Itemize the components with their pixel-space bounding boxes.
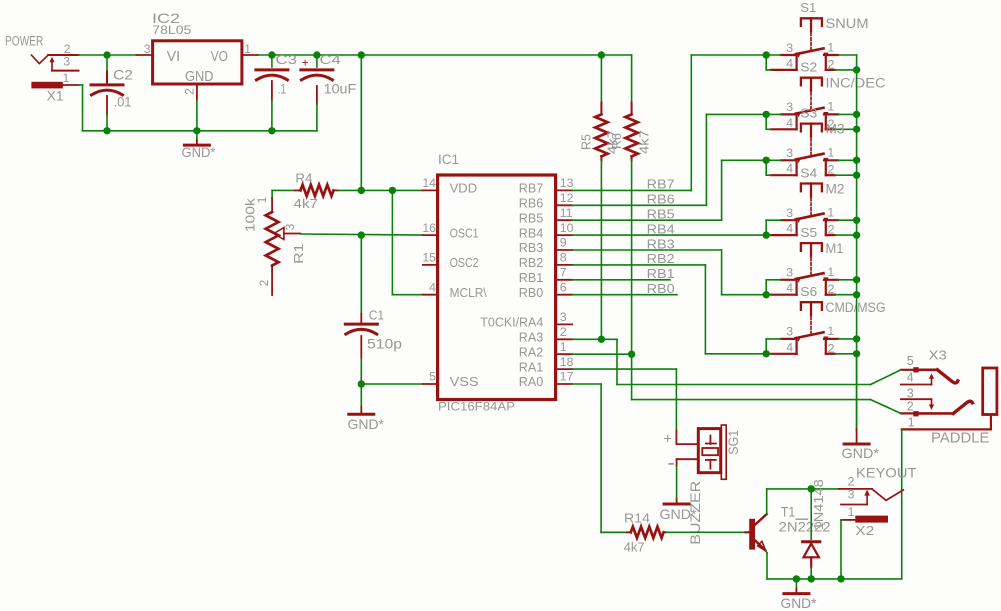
connector X3 (paddle jack) — [907, 347, 947, 429]
svg-text:RB4: RB4 — [519, 226, 544, 240]
svg-text:2: 2 — [257, 279, 271, 286]
svg-text:1: 1 — [827, 146, 834, 160]
svg-text:4: 4 — [786, 162, 793, 176]
connector X2 (KEYOUT) — [848, 465, 917, 538]
resistor R5 — [579, 55, 619, 339]
IC1 pin 18 (RA1) stub — [519, 355, 574, 375]
svg-text:SG1: SG1 — [726, 430, 741, 455]
svg-text:3: 3 — [786, 325, 793, 339]
IC1 pin 16 (OSC1) stub — [422, 221, 478, 241]
svg-text:RB3: RB3 — [647, 236, 675, 251]
net label RB0 — [647, 281, 675, 296]
ground GND* (emitter) — [781, 579, 818, 611]
junction dot OSC1/C1 — [358, 231, 365, 238]
switch S3 wire wrap (pins 3-4) — [766, 160, 781, 175]
capacitor C1 — [345, 235, 402, 384]
IC2 pin VI stub — [137, 54, 153, 56]
wire VDD to MCLR — [392, 190, 422, 294]
resistor R14 — [601, 511, 746, 555]
svg-text:.01: .01 — [114, 95, 132, 110]
capacitor C4 (polarized) — [301, 53, 356, 131]
IC1 pin 1 (RA2) stub — [519, 340, 572, 360]
svg-text:RB6: RB6 — [647, 192, 675, 207]
svg-text:RB4: RB4 — [647, 221, 675, 236]
switch S2 dashed actuator link — [810, 92, 812, 111]
svg-text:GND*: GND* — [182, 144, 217, 160]
svg-text:SNUM: SNUM — [826, 16, 869, 31]
net label RB4 — [647, 221, 675, 236]
switch common column — [856, 55, 858, 432]
ground GND* (regulator) — [182, 131, 217, 160]
switch S5 button symbol — [800, 225, 843, 256]
svg-text:KEYOUT: KEYOUT — [856, 465, 917, 481]
svg-text:16: 16 — [422, 221, 436, 235]
wire emitter down to rail — [766, 551, 767, 579]
svg-text:3: 3 — [786, 100, 793, 114]
svg-text:5: 5 — [907, 354, 914, 368]
switch S3 dashed actuator link — [810, 138, 812, 157]
svg-text:S4: S4 — [800, 165, 817, 180]
wire RA0 to R14 — [572, 384, 627, 532]
net label RB2 — [647, 251, 675, 266]
svg-text:RB0: RB0 — [519, 286, 544, 300]
svg-text:8: 8 — [560, 251, 567, 265]
svg-text:14: 14 — [422, 176, 436, 190]
junction dot column — [853, 126, 860, 133]
net label RB5 — [647, 207, 675, 222]
switch S6 pin1/pin2 to common column — [835, 339, 857, 354]
svg-text:RB2: RB2 — [519, 256, 544, 270]
junction dot C2 top — [103, 51, 110, 58]
junction dot column — [853, 172, 860, 179]
junction dot S1 feed — [763, 51, 770, 58]
junction dot diode top — [808, 485, 815, 492]
wire RB4 to S4 — [572, 234, 766, 236]
svg-text:5: 5 — [429, 370, 436, 384]
wire RA3 to X3 tip — [572, 339, 870, 384]
svg-text:1: 1 — [827, 40, 834, 54]
svg-text:RA0: RA0 — [519, 375, 544, 389]
ground GND* (buzzer) — [660, 466, 698, 522]
net label RB6 — [647, 192, 675, 207]
switch S1 dashed actuator link — [810, 33, 812, 52]
wire X3 sleeve to emitter rail — [901, 429, 903, 579]
wire C1/VSS to pin 5 — [361, 383, 423, 385]
svg-text:M1: M1 — [826, 241, 844, 256]
svg-text:GND*: GND* — [781, 595, 818, 611]
svg-text:1: 1 — [827, 206, 834, 220]
junction dot column — [853, 291, 860, 298]
svg-text:2: 2 — [828, 223, 835, 237]
junction dot VDD 1 — [358, 187, 365, 194]
emitter/ground rail — [767, 578, 902, 580]
junction dot S3 feed — [763, 157, 770, 164]
svg-text:12: 12 — [560, 191, 574, 205]
junction dot KEYOUT rail start — [808, 485, 815, 492]
junction dot gnd stem — [793, 575, 800, 582]
junction dot column — [853, 231, 860, 238]
IC2 pin GND stub — [196, 84, 198, 100]
svg-text:2: 2 — [848, 475, 855, 489]
svg-text:2: 2 — [64, 42, 71, 56]
switch S4 wire wrap (pins 3-4) — [766, 220, 781, 235]
svg-text:PIC16F84AP: PIC16F84AP — [438, 401, 515, 414]
switch S6 dashed actuator link — [810, 317, 812, 336]
svg-text:10: 10 — [560, 221, 574, 235]
wire RB7 to S1 — [572, 55, 766, 190]
svg-text:+: + — [302, 58, 309, 70]
junction dot S2 feed — [763, 111, 770, 118]
svg-text:10uF: 10uF — [324, 82, 357, 97]
junction dot riser at +5V rail — [358, 51, 365, 58]
IC1 pin 17 (RA0) stub — [519, 370, 574, 390]
svg-text:RB3: RB3 — [519, 241, 544, 255]
+5V rail to R5/R6 — [361, 54, 631, 56]
svg-text:1: 1 — [63, 71, 70, 85]
svg-text:R14: R14 — [624, 511, 650, 526]
svg-text:RB7: RB7 — [647, 177, 675, 192]
switch S2 wire wrap (pins 3-4) — [766, 114, 781, 129]
IC1 pin 13 (RB7) stub — [519, 176, 574, 196]
IC1 pin 5 (VSS) stub — [423, 370, 479, 390]
svg-text:3: 3 — [560, 310, 567, 324]
switch S6 button symbol — [800, 284, 885, 315]
svg-text:3: 3 — [786, 206, 793, 220]
svg-text:2: 2 — [828, 341, 835, 355]
wire X1.2 to VI (power) — [79, 54, 137, 56]
SG1 pin - stub — [677, 459, 699, 466]
junction dot VDD 2 — [389, 187, 396, 194]
switch S6 wire wrap (pins 3-4) — [766, 339, 781, 354]
IC1 pin 10 (RB4) stub — [519, 221, 574, 241]
wire IC2 GND down — [196, 100, 198, 131]
IC2 pin VO stub — [242, 54, 258, 56]
svg-text:MCLR\: MCLR\ — [450, 286, 487, 300]
junction dot column — [853, 217, 860, 224]
junction dot IC2 gnd at rail — [193, 127, 200, 134]
svg-text:GND*: GND* — [348, 416, 385, 432]
label PADDLE — [931, 429, 990, 446]
IC1 pin 11 (RB5) stub — [519, 206, 573, 226]
diode D1 1N4148 — [803, 479, 826, 579]
wire RA1 to buzzer — [572, 369, 676, 432]
svg-text:3: 3 — [786, 266, 793, 280]
wire RA2 to X3 ring — [572, 354, 870, 399]
IC1 pin 12 (RB6) stub — [519, 191, 574, 211]
svg-text:9: 9 — [560, 236, 567, 250]
X3 diagonal feed (tip) — [871, 370, 901, 385]
svg-text:OSC1: OSC1 — [450, 226, 479, 240]
junction dot column — [853, 276, 860, 283]
switch S5 pin1/pin2 to common column — [835, 280, 857, 295]
svg-text:X3: X3 — [929, 347, 947, 362]
junction dot diode bottom — [808, 575, 815, 582]
label BUZZER — [687, 481, 703, 545]
svg-text:3: 3 — [283, 223, 297, 230]
X1 pin 1 (thick pad) — [31, 82, 78, 89]
capacitor C3 — [256, 53, 297, 131]
svg-text:15: 15 — [422, 251, 436, 265]
svg-text:13: 13 — [560, 176, 574, 190]
svg-text:OSC2: OSC2 — [450, 256, 479, 270]
svg-text:VI: VI — [167, 49, 181, 65]
ground GND* (C1/VSS) — [348, 384, 385, 432]
svg-text:C3: C3 — [276, 53, 298, 67]
svg-text:R1: R1 — [292, 244, 306, 264]
switch S2 button symbol — [800, 60, 885, 91]
svg-text:IC1: IC1 — [438, 152, 459, 167]
svg-text:4k7: 4k7 — [294, 196, 319, 211]
svg-text:7: 7 — [560, 266, 567, 280]
svg-text:4: 4 — [786, 222, 793, 236]
svg-text:CMD/MSG: CMD/MSG — [826, 300, 886, 315]
svg-text:3: 3 — [786, 41, 793, 55]
junction dot R5 top — [598, 51, 605, 58]
svg-text:3: 3 — [848, 488, 855, 502]
svg-text:6: 6 — [560, 280, 567, 294]
svg-text:11: 11 — [560, 206, 573, 220]
switch S6 contacts — [771, 324, 838, 355]
junction dot S6 feed — [763, 350, 770, 357]
wire RB0 (stub) — [572, 294, 677, 296]
svg-text:R4: R4 — [295, 170, 312, 185]
switch S5 dashed actuator link — [810, 258, 812, 277]
switch S4 pin1/pin2 to common column — [835, 220, 857, 235]
svg-text:1: 1 — [827, 324, 834, 338]
svg-text:2: 2 — [907, 400, 914, 414]
svg-text:S2: S2 — [800, 60, 817, 75]
IC1 pin 3 (T0CKI/RA4) stub — [480, 310, 572, 330]
wire RB6 to S2 — [572, 114, 766, 205]
junction dot S5 feed — [763, 291, 770, 298]
svg-text:S3: S3 — [800, 105, 817, 120]
svg-text:4: 4 — [786, 116, 793, 130]
svg-text:1: 1 — [560, 340, 567, 354]
svg-text:1: 1 — [827, 100, 834, 114]
svg-text:RB0: RB0 — [647, 281, 675, 296]
wire RB5 to S3 — [572, 160, 766, 220]
svg-text:3: 3 — [63, 55, 70, 69]
svg-text:VDD: VDD — [450, 182, 478, 196]
IC1 pin 6 (RB0) stub — [519, 280, 572, 300]
junction dot C2 bottom — [103, 127, 110, 134]
svg-text:+: + — [664, 431, 672, 447]
svg-text:T0CKI/RA4: T0CKI/RA4 — [480, 316, 543, 330]
SG1 pin + stub — [676, 431, 698, 445]
X2 pin 3 stub — [841, 504, 867, 506]
switch S2 contacts — [771, 100, 838, 131]
junction dot column — [853, 157, 860, 164]
X1 pin 3 stub — [52, 70, 79, 72]
X3 pin 2 (ring) contact — [901, 401, 973, 416]
svg-text:X1: X1 — [47, 89, 64, 104]
buzzer SG1 — [664, 425, 742, 479]
junction dot X2 wire at rail — [837, 575, 844, 582]
svg-text:1: 1 — [827, 265, 834, 279]
svg-text:4k7: 4k7 — [624, 540, 645, 555]
svg-text:POWER: POWER — [5, 33, 43, 48]
wire R1 wiper to OSC1 — [300, 234, 423, 235]
ground GND* (switch common) — [842, 354, 880, 461]
IC1 pin 4 (MCLR\) stub — [423, 280, 487, 300]
svg-text:S5: S5 — [800, 225, 817, 240]
svg-text:4: 4 — [429, 280, 436, 294]
voltage regulator IC2 78L05 — [144, 10, 251, 95]
svg-text:18: 18 — [560, 355, 574, 369]
IC IC1 PIC16F84AP body — [438, 152, 556, 414]
svg-text:GND: GND — [185, 69, 214, 85]
svg-text:.1: .1 — [278, 82, 287, 97]
svg-text:GND*: GND* — [842, 445, 880, 461]
switch S5 wire wrap (pins 3-4) — [766, 280, 781, 295]
junction dot RA3/R5 — [598, 336, 605, 343]
svg-text:4k7: 4k7 — [638, 130, 652, 154]
svg-text:BUZZER: BUZZER — [687, 481, 703, 545]
svg-text:VO: VO — [211, 49, 229, 65]
wire RB2 to S6 — [572, 265, 766, 354]
svg-text:RB2: RB2 — [647, 251, 675, 266]
svg-text:2: 2 — [183, 88, 197, 95]
svg-text:4: 4 — [786, 340, 793, 354]
svg-text:PADDLE: PADDLE — [931, 429, 990, 446]
IC1 pin 2 (RA3) stub — [519, 325, 572, 345]
wire collector up to KEYOUT rail — [767, 489, 839, 514]
X3 pin 4 switch contact — [901, 373, 934, 384]
svg-text:M3: M3 — [826, 122, 845, 137]
junction dot VSS/C1 — [358, 380, 365, 387]
connector X1 (POWER jack) — [5, 33, 71, 103]
wire X1.1 to ground rail — [79, 85, 108, 131]
svg-text:RB1: RB1 — [519, 271, 544, 285]
switch S1 contacts — [771, 40, 838, 71]
svg-text:RB5: RB5 — [647, 207, 675, 222]
junction dot S4 feed — [763, 231, 770, 238]
junction dot RA2/R6 — [628, 351, 635, 358]
svg-text:C4: C4 — [320, 53, 341, 67]
junction dot column — [853, 335, 860, 342]
switch S4 contacts — [771, 206, 838, 237]
X3 pin 5 (tip) contact — [901, 367, 958, 383]
svg-text:RA1: RA1 — [519, 360, 544, 374]
net label RB7 — [647, 177, 675, 192]
svg-text:3: 3 — [786, 146, 793, 160]
svg-text:1: 1 — [848, 505, 855, 519]
svg-text:2: 2 — [828, 163, 835, 177]
svg-text:INC/DEC: INC/DEC — [826, 76, 886, 91]
resistor R6 — [610, 55, 652, 354]
resistor R4 — [272, 170, 423, 211]
junction dot column — [853, 350, 860, 357]
svg-text:X2: X2 — [855, 523, 874, 538]
svg-text:1: 1 — [255, 196, 269, 203]
svg-text:RB7: RB7 — [519, 182, 544, 196]
svg-text:M2: M2 — [826, 181, 845, 196]
svg-text:R6: R6 — [610, 133, 624, 149]
svg-text:T1: T1 — [781, 504, 796, 520]
X3 pin 3 switch contact — [901, 399, 934, 410]
net label RB1 — [647, 266, 675, 281]
svg-text:S6: S6 — [800, 284, 817, 299]
svg-text:4: 4 — [786, 281, 793, 295]
svg-text:C2: C2 — [113, 66, 133, 82]
junction dot C3 top — [268, 51, 275, 58]
junction dot column — [853, 111, 860, 118]
X2 pin 1 (thick pad) — [843, 516, 889, 523]
X1 pin 2 stub — [48, 54, 78, 56]
net label RB3 — [647, 236, 675, 251]
svg-text:1: 1 — [908, 416, 915, 430]
svg-text:RB6: RB6 — [519, 197, 544, 211]
svg-text:2: 2 — [828, 282, 835, 296]
X2 pin 2 stub and jack chevron — [839, 489, 904, 505]
svg-text:R5: R5 — [579, 134, 593, 150]
IC1 pin 8 (RB2) stub — [519, 251, 572, 271]
switch S5 contacts — [771, 265, 838, 296]
wire RB3 to S5 — [572, 250, 766, 295]
switch S1 pin1/pin2 to common column — [835, 55, 857, 70]
IC1 pin 9 (RB3) stub — [519, 236, 572, 256]
junction dot C3 bottom — [268, 127, 275, 134]
switch S3 pin1/pin2 to common column — [835, 160, 857, 175]
transistor T1 2N2222 — [746, 504, 831, 551]
svg-text:RA3: RA3 — [519, 331, 544, 345]
capacitor C2 — [91, 55, 133, 131]
svg-text:RB5: RB5 — [519, 211, 544, 225]
svg-text:17: 17 — [560, 370, 574, 384]
svg-text:C1: C1 — [369, 307, 384, 322]
switch S1 wire wrap (pins 3-4) — [766, 55, 781, 70]
wire X2.1 down to rail — [841, 520, 843, 579]
svg-text:2: 2 — [828, 57, 835, 71]
IC1 pin 7 (RB1) stub — [519, 266, 572, 286]
svg-text:4: 4 — [907, 370, 914, 384]
switch S4 dashed actuator link — [810, 198, 812, 217]
X3 pin 1 (sleeve) — [902, 415, 991, 429]
junction dot column — [853, 66, 860, 73]
switch S1 button symbol — [800, 0, 868, 31]
switch S4 button symbol — [800, 165, 844, 196]
svg-text:S1: S1 — [800, 0, 816, 15]
switch S3 button symbol — [800, 105, 844, 136]
X3 diagonal feed (ring) — [871, 400, 901, 414]
svg-text:78L05: 78L05 — [152, 23, 191, 37]
IC1 pin 14 (VDD) stub — [422, 176, 477, 196]
trimmer R1 (100k) — [243, 190, 306, 295]
wire RB1 (stub) — [572, 279, 670, 281]
ground rail (bottom-left) — [107, 130, 317, 132]
wire VO to +5V rail — [258, 54, 361, 56]
svg-text:RB1: RB1 — [647, 266, 675, 281]
svg-text:RA2: RA2 — [519, 345, 544, 359]
switch S3 contacts — [771, 146, 838, 177]
switch S2 pin1/pin2 to common column — [835, 114, 857, 129]
riser +5V to VDD — [360, 55, 362, 190]
svg-text:510p: 510p — [367, 337, 402, 352]
svg-text:2: 2 — [560, 325, 567, 339]
IC1 pin 15 (OSC2) stub — [422, 251, 478, 271]
svg-text:VSS: VSS — [450, 375, 479, 389]
X3 jack barrel — [983, 368, 997, 415]
junction dot C4 top — [313, 51, 320, 58]
svg-text:4: 4 — [786, 56, 793, 70]
